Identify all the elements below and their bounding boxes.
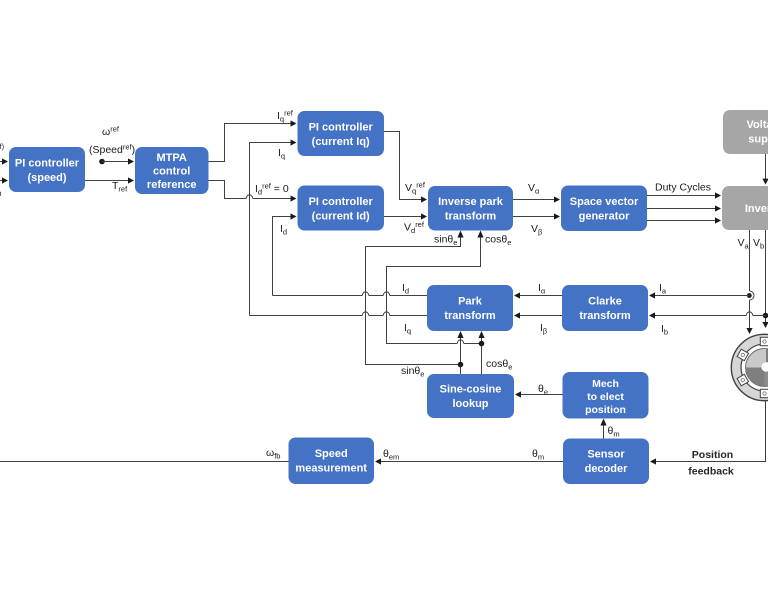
svg-text:Id: Id: [280, 223, 287, 237]
node sin theta junction dot: [458, 362, 464, 368]
wire cos theta to Inverse park with hop: [387, 231, 484, 344]
wire speed ref dot to MTPA: [102, 158, 134, 164]
block Space vector generator: [561, 186, 647, 232]
block Inverter: [722, 186, 768, 230]
wire I alpha Clarke to Park: [514, 292, 562, 298]
wire duty cycle 2 Space vector to Inverter: [647, 205, 721, 211]
svg-text:Park: Park: [458, 296, 483, 308]
block MTPA control reference: [135, 147, 209, 194]
svg-text:Duty Cycles: Duty Cycles: [655, 182, 711, 194]
svg-text:Mech: Mech: [592, 378, 619, 390]
svg-text:cosθe: cosθe: [486, 358, 512, 372]
svg-text:measurement: measurement: [295, 463, 367, 475]
svg-text:decoder: decoder: [585, 463, 629, 475]
node speed ref dot: [99, 159, 105, 165]
svg-text:Ia: Ia: [659, 282, 667, 296]
block Sensor decoder: [563, 439, 649, 485]
wire MTPA to PI current Id (Id ref = 0) with hop: [209, 181, 297, 202]
svg-text:θm: θm: [608, 425, 620, 439]
wire Iq Park output with hops: [250, 312, 428, 316]
wire duty cycle 1 Space vector to Inverter: [647, 192, 721, 198]
svg-text:lookup: lookup: [452, 398, 488, 410]
block Clarke transform: [562, 285, 648, 331]
motor PMSM icon: [731, 334, 768, 400]
block PI controller (current Iq): [298, 111, 385, 156]
svg-text:Vα: Vα: [528, 182, 540, 196]
svg-text:Position: Position: [692, 449, 733, 461]
svg-text:Tref: Tref: [112, 180, 128, 194]
wire position feedback motor to Sensor decoder: [650, 400, 766, 465]
block Park transform: [427, 285, 513, 331]
svg-text:Speed: Speed: [315, 448, 348, 460]
svg-text:MTPA: MTPA: [157, 152, 187, 164]
svg-text:transform: transform: [579, 310, 631, 322]
wire duty cycle 3 Space vector to Inverter: [647, 217, 721, 223]
svg-text:Sine-cosine: Sine-cosine: [440, 384, 502, 396]
block Inverse park transform: [428, 186, 513, 231]
node Ib tap dot: [763, 313, 768, 319]
wire sin theta lookup to Park: [457, 331, 463, 374]
svg-text:ωfb: ωfb: [266, 447, 280, 461]
wire Ib tap to Clarke with hop: [649, 312, 766, 319]
svg-text:(current Id): (current Id): [312, 211, 370, 223]
svg-text:Inverter: Inverter: [745, 203, 768, 215]
wire speed ref input into PI speed: [0, 158, 8, 164]
block Sine-cosine lookup: [427, 374, 514, 418]
block Mech to elect position: [563, 372, 649, 419]
svg-text:Vdref: Vdref: [404, 220, 425, 235]
block PI controller (current Id): [298, 186, 385, 231]
svg-text:PI controller: PI controller: [309, 196, 374, 208]
svg-text:generator: generator: [579, 211, 630, 223]
node Ia tap dot: [747, 293, 752, 298]
svg-text:Space vector: Space vector: [570, 196, 639, 208]
svg-text:feedback: feedback: [688, 466, 734, 478]
svg-text:position: position: [585, 404, 626, 416]
wire V alpha Inverse park to Space vector: [513, 196, 560, 202]
wire Id Park output with hops: [273, 292, 428, 296]
svg-text:Clarke: Clarke: [588, 296, 622, 308]
wire Voltage supply to Inverter: [762, 154, 768, 185]
svg-text:Vβ: Vβ: [531, 223, 543, 237]
wire theta m Sensor decoder to Speed measurement: [375, 458, 563, 464]
svg-text:to elect: to elect: [587, 391, 624, 403]
wire Vq ref PI Iq to Inverse park: [384, 132, 427, 203]
svg-text:θem: θem: [383, 448, 399, 462]
svg-text:PI controller: PI controller: [309, 122, 374, 134]
wire theta m Sensor decoder to Mech: [600, 419, 606, 439]
svg-text:θm: θm: [532, 448, 544, 462]
wire Iq feedback into PI current Iq: [250, 139, 297, 315]
svg-text:sinθe: sinθe: [434, 234, 457, 248]
wire V beta Inverse park to Space vector: [513, 213, 560, 219]
svg-text:supply: supply: [748, 134, 768, 146]
wire Vd ref PI Id to Inverse park: [384, 213, 427, 219]
svg-text:ωref: ωref: [102, 125, 120, 139]
svg-text:sinθe: sinθe: [401, 365, 424, 379]
svg-text:Iα: Iα: [538, 282, 546, 296]
wire theta e Mech to Sine-cosine lookup: [515, 391, 563, 397]
svg-text:Vqref: Vqref: [405, 181, 426, 196]
node cos theta junction dot: [479, 341, 485, 347]
svg-text:Voltage: Voltage: [747, 119, 768, 131]
wire MTPA to PI current Iq (Iq ref): [209, 120, 297, 161]
wire omega fb Speed measurement to left edge: [0, 461, 289, 463]
svg-text:Id: Id: [402, 282, 409, 296]
svg-text:Inverse park: Inverse park: [438, 196, 504, 208]
block PI controller (speed): [9, 147, 85, 192]
wire Va Inverter to motor with bypass arc at Ia tap: [746, 230, 754, 334]
svg-text:Iq: Iq: [278, 147, 285, 161]
svg-text:transform: transform: [445, 211, 497, 223]
svg-text:θe: θe: [538, 383, 548, 397]
svg-text:Iq: Iq: [404, 322, 411, 336]
svg-text:)f): )f): [0, 142, 5, 156]
svg-text:PI controller: PI controller: [15, 158, 80, 170]
svg-text:b: b: [0, 189, 2, 198]
block Speed measurement: [289, 438, 375, 485]
wire cos theta lookup to Park: [478, 331, 484, 374]
svg-text:transform: transform: [444, 310, 496, 322]
wire Tref PI speed to MTPA: [85, 177, 134, 183]
svg-text:(current Iq): (current Iq): [312, 136, 370, 148]
block Voltage supply: [723, 110, 768, 154]
svg-text:reference: reference: [147, 179, 197, 191]
wire sin theta to Inverse park: [366, 231, 464, 365]
svg-text:cosθe: cosθe: [485, 234, 511, 248]
svg-text:Vb: Vb: [753, 237, 764, 251]
svg-text:Va: Va: [738, 237, 750, 251]
svg-text:(Speedref): (Speedref): [89, 143, 135, 157]
svg-text:Idref = 0: Idref = 0: [255, 182, 289, 197]
wire Vb Inverter to motor: [762, 230, 768, 328]
wire Ia tap to Clarke: [649, 292, 750, 298]
wire I beta Clarke to Park: [514, 312, 562, 318]
svg-text:(speed): (speed): [27, 172, 66, 184]
svg-text:Ib: Ib: [661, 323, 668, 337]
wire speed feedback input into PI speed: [0, 177, 8, 183]
svg-text:Sensor: Sensor: [587, 449, 625, 461]
svg-text:control: control: [153, 166, 190, 178]
wire Id feedback into PI current Id: [273, 213, 297, 295]
svg-text:Iβ: Iβ: [540, 322, 548, 336]
